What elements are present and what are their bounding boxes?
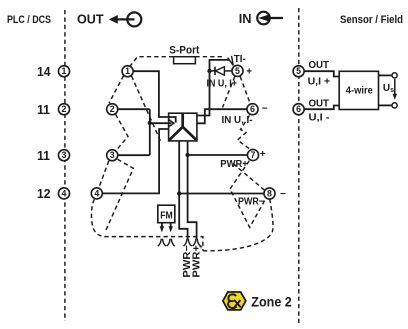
wire dashed isolation 3-bottom	[106, 159, 134, 230]
wire terminal1 to transformer	[133, 71, 176, 122]
svg-text:OUT: OUT	[77, 12, 104, 27]
terminal circle outer 1	[58, 66, 69, 77]
svg-text:3: 3	[110, 150, 115, 160]
wire dashed isolation 6-7	[238, 116, 252, 151]
socket PWR-	[184, 239, 192, 246]
wire Us arrow	[393, 79, 398, 100]
wire dashed isolation 1-transformer	[132, 76, 161, 141]
svg-text:4: 4	[62, 188, 67, 198]
wire dashed isolation 4-bottom	[91, 199, 104, 236]
svg-text:OUT: OUT	[309, 98, 330, 110]
svg-text:IN U, I+: IN U, I+	[207, 79, 238, 90]
wire 4-wire box to top terminal	[379, 74, 393, 76]
wire transformer to diode junction	[197, 71, 210, 116]
wire dashed isolation 5-left	[223, 77, 235, 108]
wire PLC/DCS boundary dashed line	[64, 10, 66, 321]
wire terminal4 to transformer	[102, 129, 168, 193]
node junction PWR+	[185, 153, 189, 157]
wire dashed S-Port link right part	[195, 56, 224, 58]
wire FM arrow left	[160, 223, 164, 233]
wire terminal3 to junction	[118, 154, 150, 156]
socket FM right	[167, 239, 175, 246]
wire transformer to terminal6	[197, 109, 247, 123]
socket FM left	[158, 239, 166, 246]
svg-text:S-Port: S-Port	[169, 44, 199, 56]
terminal circle 6	[247, 104, 258, 115]
svg-text:11: 11	[37, 102, 50, 117]
wire dashed isolation 5-6	[240, 77, 250, 104]
Ex zone logo	[223, 292, 246, 310]
terminal circle outer 4	[58, 188, 69, 199]
svg-text:−: −	[262, 104, 268, 115]
wire dashed isolation 7-V-8	[230, 161, 265, 228]
terminal circle 8	[264, 188, 275, 199]
terminal circle 5	[232, 65, 243, 76]
FM box	[158, 205, 175, 223]
svg-text:1: 1	[125, 66, 130, 76]
svg-text:U: U	[383, 83, 390, 94]
svg-text:+: +	[246, 67, 252, 78]
terminal circle inner 4	[91, 188, 102, 199]
svg-text:5: 5	[296, 66, 301, 76]
svg-text:s: s	[390, 87, 394, 94]
terminal circle inner 1	[122, 66, 133, 77]
svg-text:U,I +: U,I +	[308, 75, 331, 87]
wire dashed isolation 2-3	[116, 114, 129, 150]
svg-text:+: +	[260, 149, 266, 160]
wire arrow into transformer	[150, 120, 174, 127]
wire dashed bottom boundary	[104, 237, 203, 251]
transformer U1	[169, 113, 197, 141]
wire FM arrow right	[169, 223, 173, 233]
label OUT U,I+	[308, 59, 331, 87]
wire dashed curve to terminal 8	[203, 200, 273, 251]
wire PWR+ from transformer bottom	[188, 141, 197, 239]
terminal circle field 6	[293, 104, 304, 115]
svg-text:U,I -: U,I -	[309, 111, 331, 123]
wire 4-wire box to bottom terminal	[379, 104, 393, 106]
svg-text:2: 2	[62, 104, 67, 114]
node junction A	[148, 121, 152, 125]
wire dashed isolation 7-8 cross	[233, 164, 264, 191]
svg-text:PWR+: PWR+	[192, 245, 203, 278]
svg-text:4-wire: 4-wire	[346, 86, 373, 97]
terminal circle field 5	[293, 66, 304, 77]
svg-text:11: 11	[37, 148, 50, 163]
wire field6 to 4-wire box	[304, 106, 339, 110]
wire PWR- from transformer bottom	[179, 141, 187, 239]
svg-text:−: −	[280, 189, 286, 200]
terminal circle outer 2	[58, 104, 69, 115]
wire Sensor/Field boundary dashed line	[298, 8, 300, 325]
wire dashed S-Port link from terminal 1	[130, 57, 174, 67]
OUT direction icon	[109, 12, 142, 26]
svg-text:PWR+: PWR+	[220, 159, 248, 170]
wire dashed isolation 1-2	[109, 76, 124, 104]
svg-text:IN U, I-: IN U, I-	[222, 115, 254, 126]
svg-text:12: 12	[37, 186, 51, 201]
sensor 4-wire box	[339, 71, 378, 109]
node junction diode	[207, 69, 211, 73]
svg-text:Zone 2: Zone 2	[251, 295, 291, 310]
diode D1	[210, 67, 233, 75]
svg-text:6: 6	[250, 104, 255, 114]
wire field5 to 4-wire box	[304, 71, 339, 76]
svg-text:TI-: TI-	[234, 53, 246, 65]
svg-text:1: 1	[62, 66, 67, 76]
svg-text:OUT: OUT	[309, 59, 330, 71]
IN direction icon	[257, 12, 283, 25]
svg-text:Sensor / Field: Sensor / Field	[340, 14, 403, 26]
svg-text:2: 2	[110, 104, 115, 114]
wire to terminal8	[179, 193, 264, 195]
svg-text:6: 6	[296, 104, 301, 114]
wire terminal2 to junction	[118, 108, 150, 110]
svg-text:PWR−: PWR−	[238, 197, 264, 208]
terminal circle 7	[247, 149, 258, 160]
svg-text:PLC / DCS: PLC / DCS	[7, 14, 51, 26]
terminal sensor top	[392, 73, 397, 78]
svg-text:7: 7	[251, 150, 256, 160]
S-Port box	[174, 57, 196, 64]
wire junction vertical	[149, 109, 151, 155]
svg-text:IN: IN	[239, 11, 252, 26]
socket PWR+	[193, 239, 201, 246]
wire TI- test tap	[210, 56, 234, 71]
svg-text:3: 3	[62, 150, 67, 160]
terminal circle inner 3	[107, 150, 118, 161]
terminal sensor bottom	[392, 103, 397, 108]
svg-text:14: 14	[37, 64, 51, 79]
wire to terminal7	[188, 154, 248, 156]
wire dashed isolation 3-4	[99, 161, 109, 188]
label OUT U,I-	[309, 98, 331, 124]
svg-text:8: 8	[267, 189, 272, 199]
node junction PWR-	[177, 191, 181, 195]
svg-text:FM: FM	[160, 210, 173, 221]
label Us	[383, 83, 394, 94]
svg-text:4: 4	[94, 188, 99, 198]
terminal circle outer 3	[58, 150, 69, 161]
svg-text:5: 5	[235, 66, 240, 76]
terminal circle inner 2	[107, 104, 118, 115]
